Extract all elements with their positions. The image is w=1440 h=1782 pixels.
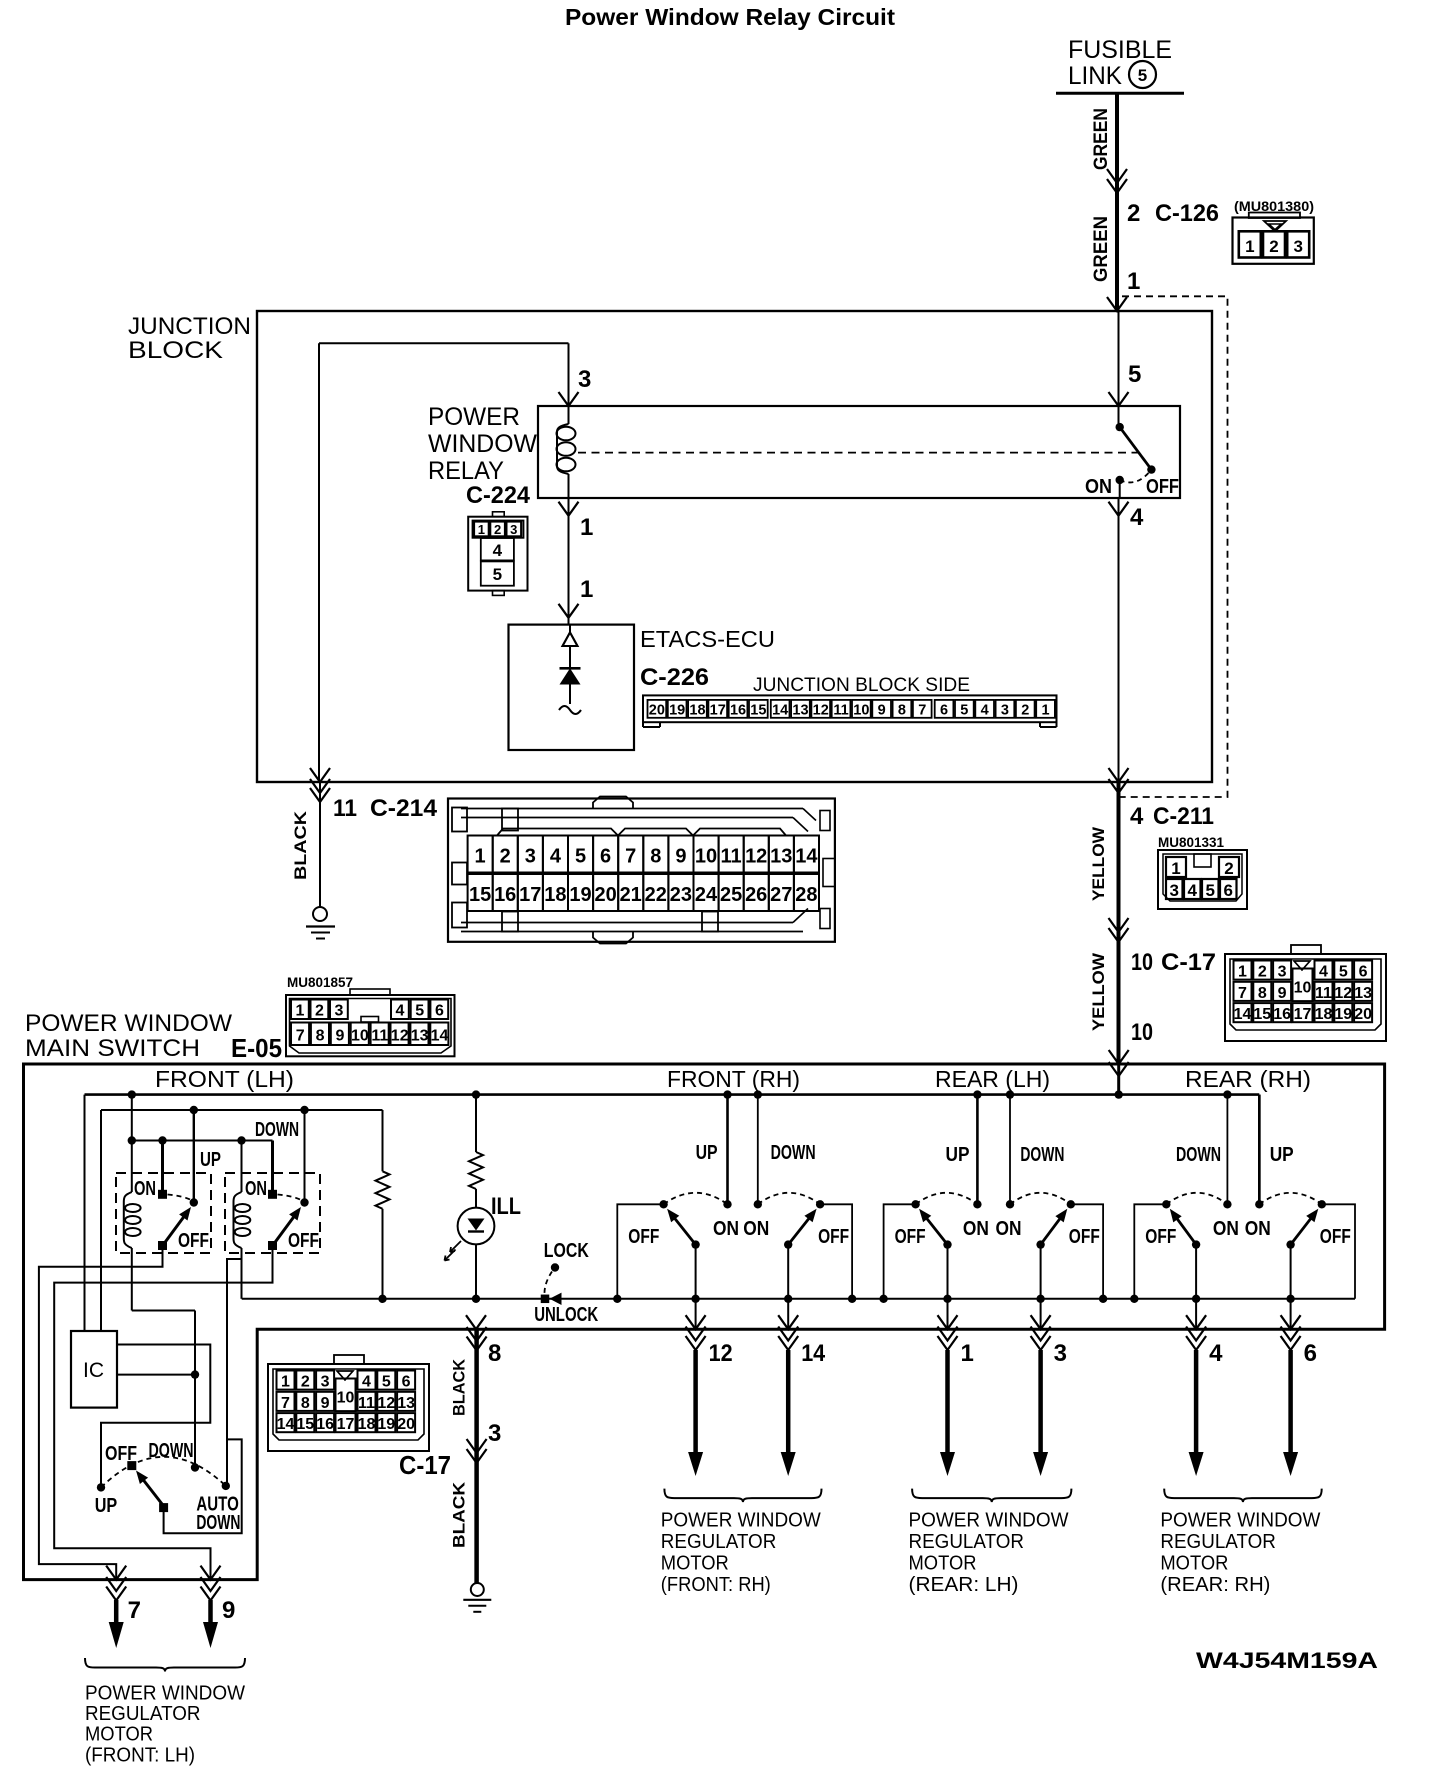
svg-text:4: 4 <box>362 1374 371 1391</box>
svg-text:UNLOCK: UNLOCK <box>534 1304 598 1326</box>
svg-text:JUNCTION BLOCK SIDE: JUNCTION BLOCK SIDE <box>753 675 970 696</box>
svg-text:1: 1 <box>1245 237 1254 256</box>
svg-text:18: 18 <box>544 884 566 906</box>
svg-text:POWER WINDOW: POWER WINDOW <box>909 1509 1070 1532</box>
svg-text:3: 3 <box>510 522 517 537</box>
svg-text:C-17: C-17 <box>399 1450 451 1480</box>
svg-text:ON: ON <box>1245 1218 1271 1240</box>
svg-text:9: 9 <box>878 702 886 718</box>
svg-text:UP: UP <box>696 1142 718 1164</box>
svg-text:4: 4 <box>1209 1340 1223 1367</box>
svg-text:17: 17 <box>710 702 726 718</box>
svg-text:22: 22 <box>645 884 667 906</box>
svg-text:19: 19 <box>1334 1006 1352 1023</box>
svg-text:14: 14 <box>277 1416 295 1433</box>
svg-text:7: 7 <box>625 846 636 868</box>
svg-text:13: 13 <box>1354 985 1372 1002</box>
svg-text:10: 10 <box>695 846 717 868</box>
svg-text:20: 20 <box>649 702 665 718</box>
svg-text:POWER WINDOW: POWER WINDOW <box>661 1509 822 1532</box>
svg-text:18: 18 <box>689 702 705 718</box>
svg-text:BLOCK: BLOCK <box>128 337 223 364</box>
svg-text:12: 12 <box>813 702 829 718</box>
svg-text:OFF: OFF <box>178 1230 209 1252</box>
svg-text:15: 15 <box>296 1416 314 1433</box>
svg-text:4: 4 <box>396 1003 405 1020</box>
svg-text:ON: ON <box>1213 1218 1239 1240</box>
svg-text:9: 9 <box>1278 985 1287 1002</box>
svg-text:5: 5 <box>415 1003 424 1020</box>
svg-text:C-214: C-214 <box>370 795 438 822</box>
svg-text:11: 11 <box>721 846 742 868</box>
svg-text:17: 17 <box>337 1416 355 1433</box>
svg-text:14: 14 <box>1234 1006 1252 1023</box>
svg-text:W4J54M159A: W4J54M159A <box>1196 1648 1378 1673</box>
svg-text:1: 1 <box>1171 859 1180 878</box>
svg-text:2: 2 <box>1127 200 1140 227</box>
svg-text:19: 19 <box>669 702 685 718</box>
svg-text:4: 4 <box>493 541 503 560</box>
svg-text:(REAR: RH): (REAR: RH) <box>1160 1573 1270 1596</box>
svg-text:OFF: OFF <box>1069 1226 1100 1248</box>
svg-text:8: 8 <box>898 702 906 718</box>
svg-text:5: 5 <box>493 565 502 584</box>
svg-text:2: 2 <box>1269 237 1278 256</box>
svg-text:(REAR: LH): (REAR: LH) <box>909 1573 1019 1596</box>
svg-text:2: 2 <box>1258 964 1267 981</box>
svg-text:REGULATOR: REGULATOR <box>909 1530 1025 1553</box>
svg-text:12: 12 <box>391 1028 409 1045</box>
svg-text:UP: UP <box>200 1149 221 1171</box>
svg-text:10: 10 <box>1294 980 1312 997</box>
svg-text:26: 26 <box>745 884 767 906</box>
svg-text:5: 5 <box>1128 361 1141 388</box>
svg-text:6: 6 <box>600 846 611 868</box>
svg-text:4: 4 <box>1319 964 1328 981</box>
svg-text:3: 3 <box>488 1420 501 1447</box>
svg-text:(FRONT: RH): (FRONT: RH) <box>661 1573 771 1596</box>
svg-text:WINDOW: WINDOW <box>428 430 537 458</box>
svg-text:POWER: POWER <box>428 403 520 431</box>
svg-text:20: 20 <box>1354 1006 1372 1023</box>
svg-text:C-126: C-126 <box>1155 200 1219 227</box>
svg-text:5: 5 <box>382 1374 391 1391</box>
svg-text:12: 12 <box>709 1340 733 1367</box>
svg-text:6: 6 <box>402 1374 411 1391</box>
svg-text:4: 4 <box>1130 803 1144 830</box>
svg-text:2: 2 <box>1021 702 1029 718</box>
svg-text:REGULATOR: REGULATOR <box>1160 1530 1276 1553</box>
svg-text:7: 7 <box>1238 985 1247 1002</box>
svg-text:19: 19 <box>377 1416 395 1433</box>
svg-text:2: 2 <box>301 1374 310 1391</box>
svg-text:11: 11 <box>1315 985 1332 1002</box>
svg-text:13: 13 <box>411 1028 429 1045</box>
svg-text:2: 2 <box>1224 859 1233 878</box>
svg-text:(FRONT: LH): (FRONT: LH) <box>85 1743 195 1766</box>
svg-text:13: 13 <box>792 702 808 718</box>
svg-text:25: 25 <box>720 884 742 906</box>
svg-text:9: 9 <box>222 1597 235 1624</box>
svg-text:5: 5 <box>575 846 586 868</box>
svg-text:2: 2 <box>500 846 511 868</box>
svg-text:ON: ON <box>743 1218 769 1240</box>
svg-text:MOTOR: MOTOR <box>909 1551 977 1574</box>
svg-text:17: 17 <box>1294 1006 1312 1023</box>
svg-text:1: 1 <box>478 522 485 537</box>
svg-text:ON: ON <box>963 1218 989 1240</box>
svg-text:14: 14 <box>795 846 818 868</box>
svg-text:2: 2 <box>494 522 501 537</box>
svg-text:2: 2 <box>315 1003 324 1020</box>
svg-text:13: 13 <box>770 846 792 868</box>
svg-text:15: 15 <box>750 702 766 718</box>
svg-text:18: 18 <box>358 1416 376 1433</box>
svg-text:18: 18 <box>1315 1006 1333 1023</box>
svg-text:BLACK: BLACK <box>450 1481 469 1548</box>
svg-text:DOWN: DOWN <box>149 1440 194 1462</box>
svg-text:C-226: C-226 <box>640 664 709 691</box>
svg-text:24: 24 <box>695 884 718 906</box>
svg-text:10: 10 <box>853 702 869 718</box>
svg-text:4: 4 <box>1187 881 1197 900</box>
svg-text:6: 6 <box>1223 881 1232 900</box>
svg-text:1: 1 <box>475 846 486 868</box>
svg-text:3: 3 <box>1278 964 1287 981</box>
svg-text:4: 4 <box>550 846 562 868</box>
svg-text:20: 20 <box>594 884 616 906</box>
svg-text:1: 1 <box>961 1340 974 1367</box>
svg-text:LINK: LINK <box>1068 62 1122 90</box>
svg-text:MOTOR: MOTOR <box>85 1723 153 1746</box>
svg-text:16: 16 <box>1273 1006 1291 1023</box>
svg-text:C-17: C-17 <box>1161 949 1216 976</box>
svg-text:OFF: OFF <box>105 1443 137 1465</box>
svg-text:7: 7 <box>128 1597 141 1624</box>
svg-text:5: 5 <box>1205 881 1214 900</box>
svg-text:12: 12 <box>377 1395 395 1412</box>
svg-text:UP: UP <box>95 1495 118 1517</box>
svg-text:DOWN: DOWN <box>1020 1144 1064 1166</box>
svg-text:OFF: OFF <box>1320 1226 1351 1248</box>
svg-text:5: 5 <box>1339 964 1348 981</box>
svg-text:5: 5 <box>1138 66 1147 85</box>
svg-text:C-211: C-211 <box>1153 803 1214 830</box>
svg-text:1: 1 <box>1238 964 1247 981</box>
svg-text:YELLOW: YELLOW <box>1089 826 1108 901</box>
svg-text:REAR (RH): REAR (RH) <box>1185 1066 1311 1092</box>
svg-text:13: 13 <box>397 1395 415 1412</box>
svg-text:16: 16 <box>730 702 746 718</box>
svg-text:RELAY: RELAY <box>428 457 504 485</box>
svg-text:ON: ON <box>713 1218 739 1240</box>
svg-text:FRONT (LH): FRONT (LH) <box>155 1066 294 1092</box>
svg-text:IC: IC <box>83 1359 104 1382</box>
svg-text:GREEN: GREEN <box>1091 216 1112 282</box>
svg-text:12: 12 <box>1334 985 1352 1002</box>
svg-text:Power Window Relay Circuit: Power Window Relay Circuit <box>565 4 895 30</box>
svg-text:FRONT (RH): FRONT (RH) <box>667 1066 800 1092</box>
svg-text:E-05: E-05 <box>231 1033 282 1063</box>
svg-text:1: 1 <box>281 1374 290 1391</box>
svg-text:8: 8 <box>488 1340 501 1367</box>
svg-text:12: 12 <box>745 846 767 868</box>
svg-text:DOWN: DOWN <box>196 1512 240 1534</box>
svg-text:6: 6 <box>435 1003 444 1020</box>
svg-text:3: 3 <box>578 366 591 393</box>
svg-text:4: 4 <box>1130 504 1144 531</box>
svg-text:8: 8 <box>1258 985 1267 1002</box>
svg-text:14: 14 <box>772 702 788 718</box>
svg-text:11: 11 <box>333 795 357 822</box>
svg-text:21: 21 <box>620 884 642 906</box>
svg-text:9: 9 <box>675 846 686 868</box>
svg-text:DOWN: DOWN <box>771 1142 816 1164</box>
svg-text:7: 7 <box>918 702 926 718</box>
svg-text:16: 16 <box>316 1416 334 1433</box>
svg-text:OFF: OFF <box>1145 1226 1176 1248</box>
svg-text:8: 8 <box>301 1395 310 1412</box>
svg-text:ON: ON <box>1085 476 1112 498</box>
svg-text:3: 3 <box>1169 881 1178 900</box>
svg-text:27: 27 <box>770 884 792 906</box>
svg-text:MAIN SWITCH: MAIN SWITCH <box>25 1035 200 1062</box>
svg-text:UP: UP <box>1270 1144 1294 1166</box>
svg-text:9: 9 <box>336 1028 345 1045</box>
svg-text:11: 11 <box>833 702 848 718</box>
svg-text:6: 6 <box>940 702 948 718</box>
svg-text:OFF: OFF <box>895 1226 926 1248</box>
svg-text:REAR (LH): REAR (LH) <box>935 1066 1050 1092</box>
svg-text:16: 16 <box>494 884 516 906</box>
svg-text:1: 1 <box>1127 268 1140 295</box>
svg-text:10: 10 <box>1131 1019 1153 1046</box>
svg-text:14: 14 <box>801 1340 826 1367</box>
svg-text:5: 5 <box>960 702 968 718</box>
svg-text:15: 15 <box>1253 1006 1271 1023</box>
svg-text:7: 7 <box>296 1028 305 1045</box>
svg-text:MOTOR: MOTOR <box>661 1551 729 1574</box>
svg-text:9: 9 <box>321 1395 330 1412</box>
svg-text:3: 3 <box>1293 237 1302 256</box>
svg-text:C-224: C-224 <box>466 482 531 509</box>
svg-text:3: 3 <box>335 1003 344 1020</box>
svg-text:FUSIBLE: FUSIBLE <box>1068 36 1172 64</box>
svg-text:POWER WINDOW: POWER WINDOW <box>1160 1509 1321 1532</box>
svg-text:1: 1 <box>580 514 593 541</box>
svg-text:1: 1 <box>580 576 593 603</box>
svg-text:17: 17 <box>519 884 541 906</box>
svg-text:REGULATOR: REGULATOR <box>661 1530 777 1553</box>
svg-text:20: 20 <box>397 1416 415 1433</box>
svg-text:REGULATOR: REGULATOR <box>85 1702 201 1725</box>
svg-text:3: 3 <box>525 846 536 868</box>
svg-text:3: 3 <box>1001 702 1009 718</box>
svg-text:10: 10 <box>1131 949 1153 976</box>
svg-text:BLACK: BLACK <box>291 810 310 880</box>
svg-text:10: 10 <box>337 1390 355 1407</box>
svg-text:8: 8 <box>316 1028 325 1045</box>
svg-text:OFF: OFF <box>288 1230 319 1252</box>
svg-text:1: 1 <box>296 1003 305 1020</box>
svg-text:6: 6 <box>1359 964 1368 981</box>
svg-text:ON: ON <box>134 1178 156 1200</box>
svg-text:3: 3 <box>321 1374 330 1391</box>
svg-text:3: 3 <box>1054 1340 1067 1367</box>
svg-text:23: 23 <box>670 884 692 906</box>
svg-text:MOTOR: MOTOR <box>1160 1551 1228 1574</box>
svg-text:7: 7 <box>281 1395 290 1412</box>
svg-text:LOCK: LOCK <box>544 1240 589 1262</box>
svg-text:8: 8 <box>650 846 661 868</box>
svg-text:DOWN: DOWN <box>255 1119 299 1141</box>
svg-text:28: 28 <box>795 884 817 906</box>
svg-text:MU801331: MU801331 <box>1158 835 1224 850</box>
svg-text:JUNCTION: JUNCTION <box>128 313 251 340</box>
svg-text:DOWN: DOWN <box>1176 1144 1221 1166</box>
svg-text:4: 4 <box>981 702 989 718</box>
svg-text:ON: ON <box>996 1218 1022 1240</box>
svg-text:OFF: OFF <box>818 1226 849 1248</box>
svg-text:POWER WINDOW: POWER WINDOW <box>85 1682 246 1705</box>
svg-text:YELLOW: YELLOW <box>1089 952 1108 1031</box>
svg-text:POWER WINDOW: POWER WINDOW <box>25 1010 232 1037</box>
svg-text:14: 14 <box>431 1028 449 1045</box>
svg-text:BLACK: BLACK <box>450 1358 469 1416</box>
svg-text:MU801857: MU801857 <box>287 975 353 990</box>
svg-text:ETACS-ECU: ETACS-ECU <box>640 626 775 652</box>
svg-text:OFF: OFF <box>628 1226 659 1248</box>
svg-text:GREEN: GREEN <box>1091 108 1112 170</box>
svg-text:1: 1 <box>1042 702 1050 718</box>
svg-text:OFF: OFF <box>1146 476 1179 498</box>
svg-text:10: 10 <box>351 1028 369 1045</box>
svg-text:11: 11 <box>371 1028 388 1045</box>
svg-text:19: 19 <box>569 884 591 906</box>
svg-text:UP: UP <box>946 1144 970 1166</box>
svg-text:ON: ON <box>245 1178 267 1200</box>
svg-text:ILL: ILL <box>491 1193 521 1220</box>
svg-text:11: 11 <box>358 1395 375 1412</box>
svg-text:15: 15 <box>469 884 491 906</box>
svg-text:6: 6 <box>1304 1340 1317 1367</box>
